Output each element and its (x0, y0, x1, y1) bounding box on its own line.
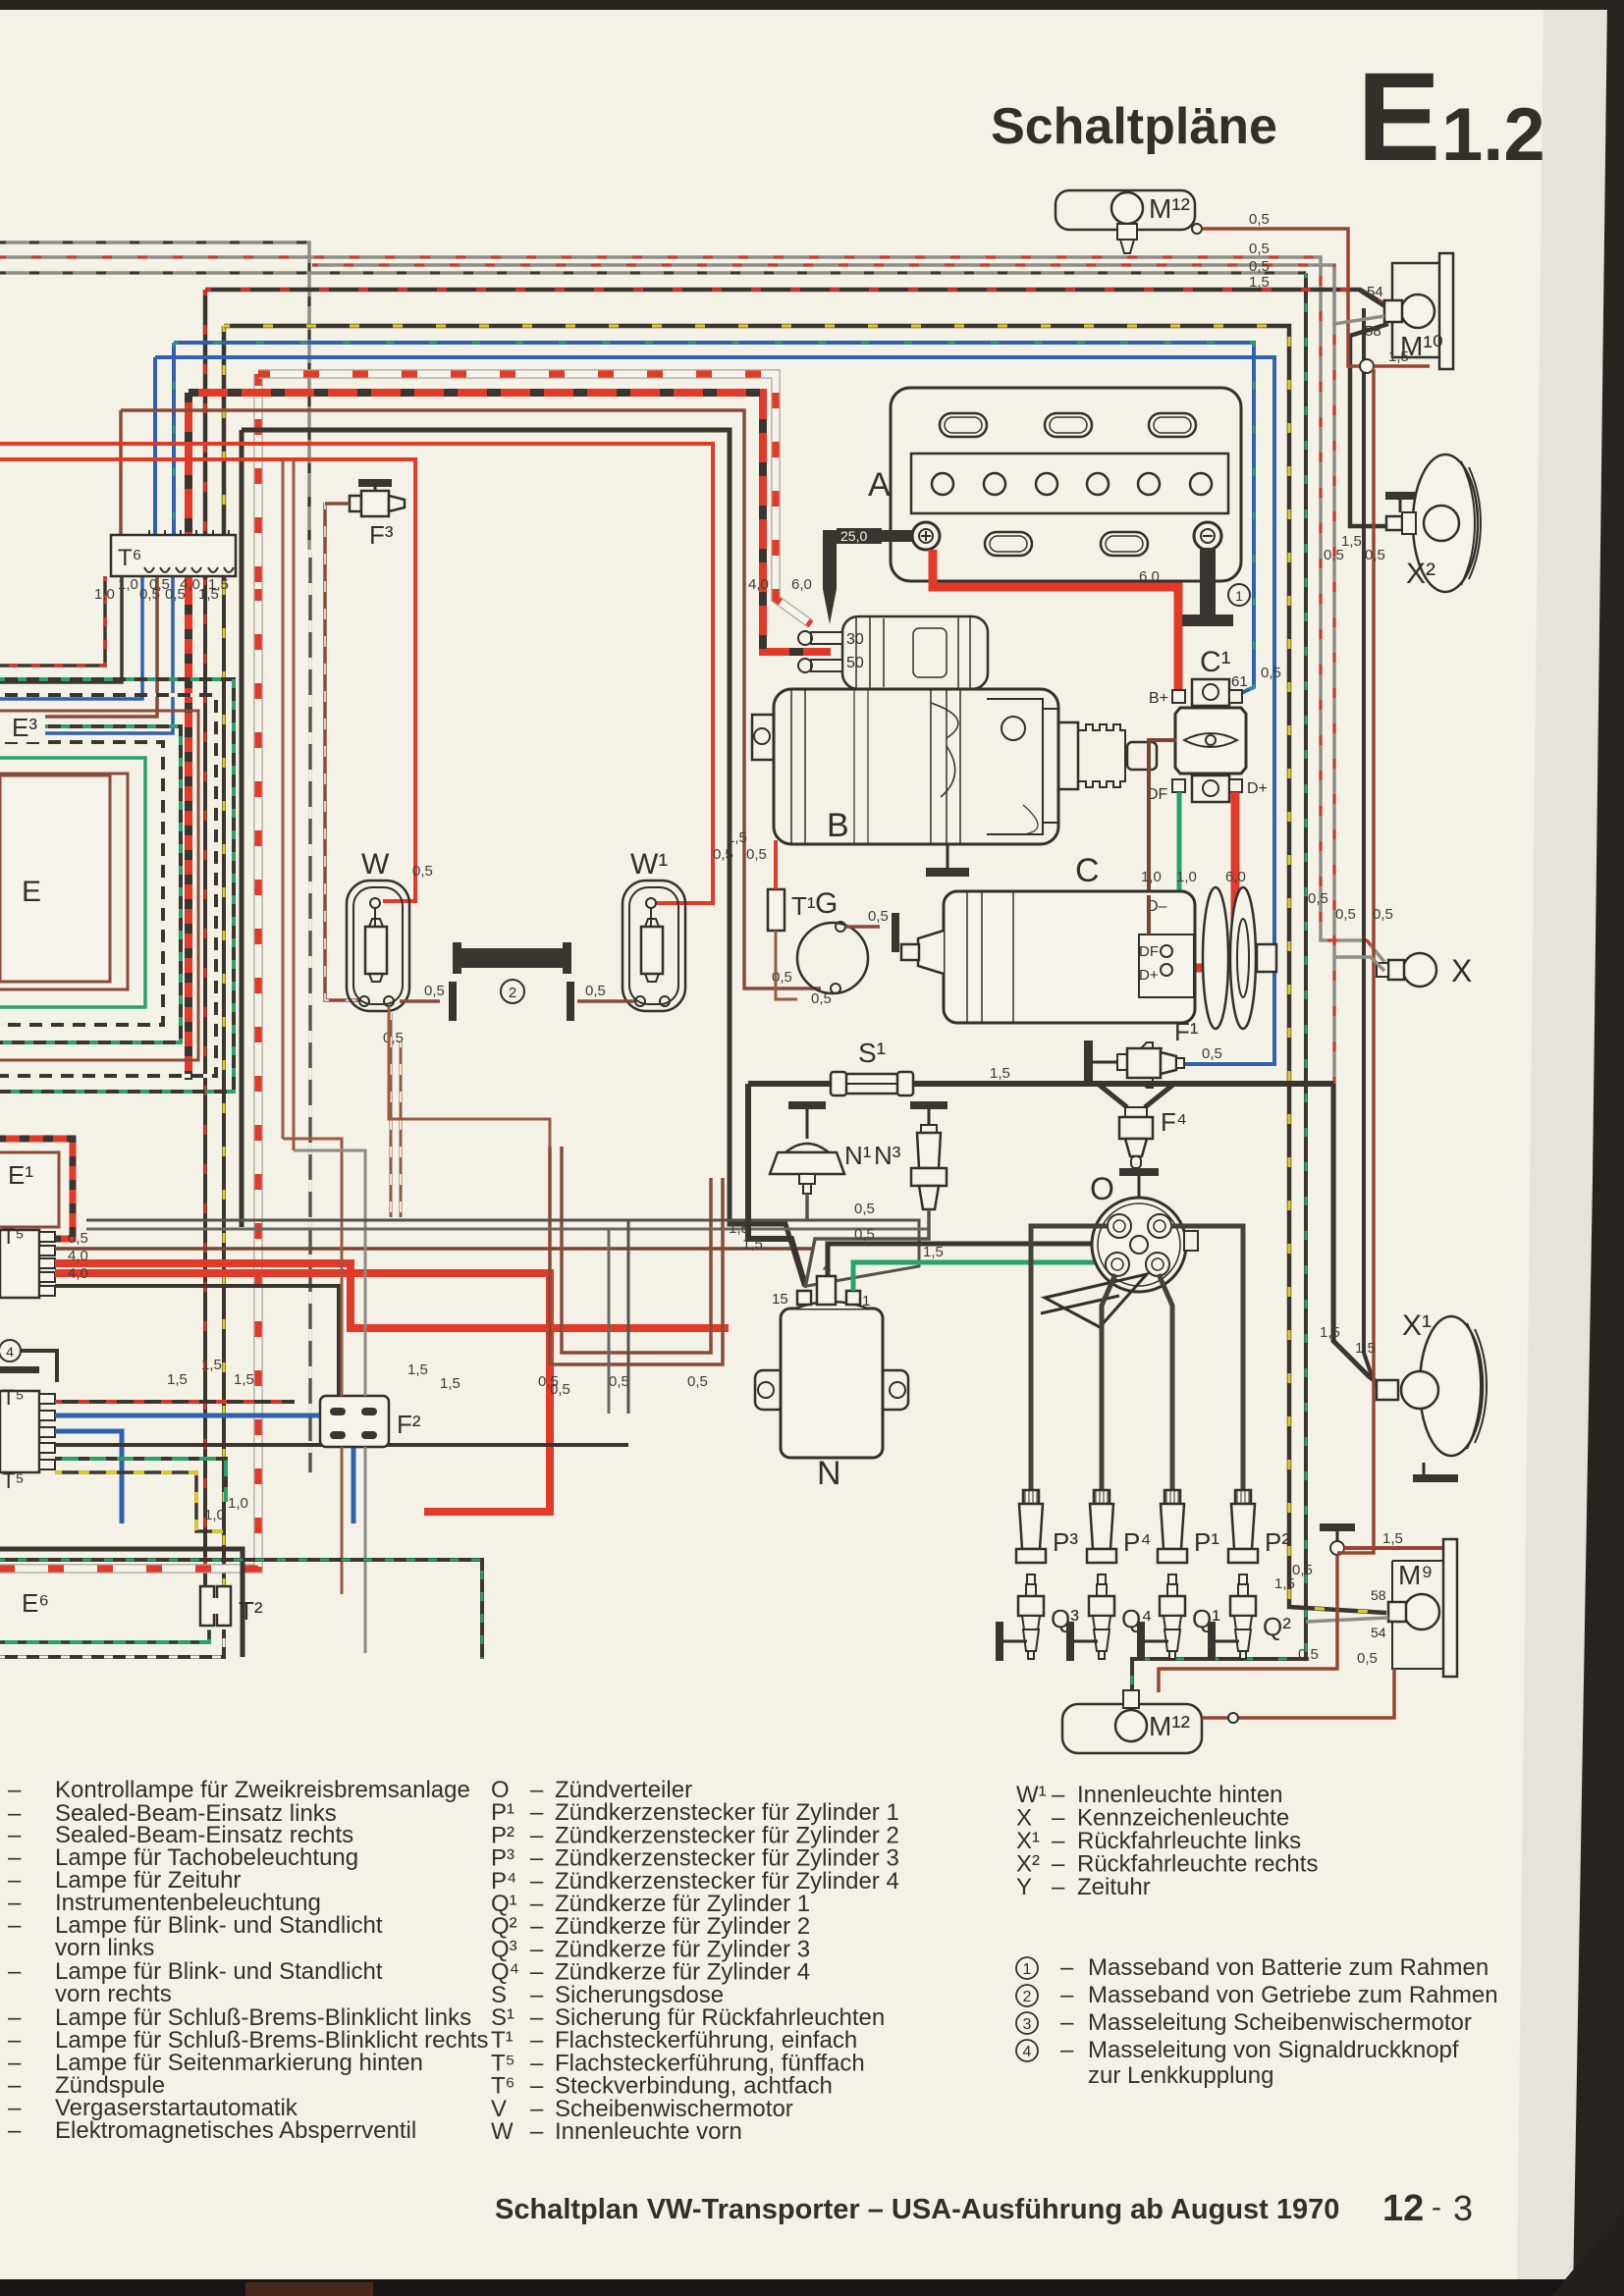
wire F3 brown lead (325, 502, 350, 506)
backup lamp X1 (1420, 1316, 1483, 1456)
wire black thick to coil (240, 430, 244, 609)
svg-text:1,0: 1,0 (228, 1495, 248, 1512)
wire gray vert 640 (627, 1220, 630, 1414)
svg-text:–: – (1060, 1954, 1074, 1981)
svg-text:1,0: 1,0 (1176, 869, 1197, 885)
svg-text:X: X (1451, 953, 1472, 988)
generator C (944, 891, 1195, 1023)
wire vert candy x192 (185, 609, 192, 1080)
cable battery minus to ground (1200, 548, 1216, 614)
ground F1 ground (1084, 1041, 1093, 1084)
plug connector P⁴ (1094, 1490, 1110, 1504)
wire left nest corner 0 (0, 576, 105, 666)
svg-text:1,0: 1,0 (118, 576, 138, 593)
svg-text:1,5: 1,5 (1249, 274, 1270, 291)
wire circled4 wire (21, 1351, 57, 1382)
svg-text:1: 1 (862, 1293, 870, 1309)
ground Q³ (996, 1622, 1003, 1661)
ground starter (947, 844, 949, 868)
svg-text:1,5: 1,5 (234, 1371, 254, 1388)
wire T5l blue2 (55, 1431, 122, 1523)
wire green C1 DF-gen (1165, 792, 1179, 951)
svg-text:1,5: 1,5 (1388, 348, 1409, 365)
svg-text:0,5: 0,5 (1373, 906, 1393, 923)
svg-text:1,5: 1,5 (201, 1357, 222, 1373)
svg-text:2: 2 (1023, 1989, 1032, 2005)
connector T1 (768, 889, 785, 931)
ground strap 2 (460, 948, 565, 968)
ground W1 left (567, 982, 574, 1021)
wire gray second into X (1334, 957, 1384, 971)
wire red thin to W (0, 459, 415, 901)
wire T5l black (55, 1443, 628, 1447)
wire vert black/yellow x228 (222, 589, 226, 1586)
battery A (891, 388, 1241, 581)
wire mid horiz b (86, 1228, 929, 1231)
svg-text:T⁵: T⁵ (2, 1224, 25, 1249)
wire red/black 4.0 candy v (185, 393, 192, 609)
svg-text:O: O (1090, 1171, 1114, 1206)
wire black/yellow to M9 (222, 326, 227, 589)
fuse F4 (1098, 1084, 1174, 1107)
svg-text:N: N (817, 1455, 841, 1492)
ground X1 stand (1413, 1474, 1458, 1482)
svg-text:Schaltpläne: Schaltpläne (991, 98, 1277, 155)
ground M9 ground (1320, 1523, 1355, 1531)
svg-text:4: 4 (6, 1344, 14, 1360)
svg-text:1,0: 1,0 (94, 586, 115, 603)
wire gray/red W2b to X1 (312, 265, 1386, 1386)
battery minus terminal (1194, 522, 1221, 550)
wire brown dash pair a (390, 1013, 393, 1217)
svg-text:0,5: 0,5 (1249, 211, 1270, 228)
wire lead to P4 (1102, 1274, 1115, 1496)
wire E-box frame 4 (0, 711, 198, 1060)
svg-text:–: – (1060, 2037, 1074, 2063)
battery plus terminal (912, 522, 940, 550)
wire brown dash pair b (400, 1041, 403, 1217)
svg-text:4,0: 4,0 (68, 1248, 88, 1264)
wire W bottom right brown (400, 999, 440, 1003)
wire G top lead (845, 925, 880, 929)
svg-text:0,5: 0,5 (1308, 890, 1328, 907)
wire brown to G h (121, 410, 821, 988)
svg-text:0,5: 0,5 (1292, 1562, 1313, 1578)
svg-text:E³: E³ (12, 713, 37, 742)
ground N3 ground (910, 1101, 947, 1109)
wire brown loop a (550, 1147, 723, 1364)
svg-text:0,5: 0,5 (424, 983, 445, 999)
wire black/yellow to M9 h (224, 326, 1386, 1613)
wire brown to G (119, 410, 123, 550)
wire vert brown x288 (282, 461, 285, 1139)
wire red/white 6.0 candy h (258, 374, 811, 624)
svg-text:F²: F² (397, 1410, 421, 1439)
wire brown C1-Dminus (1149, 740, 1176, 895)
svg-text:A: A (868, 466, 891, 504)
wire gray into M9 54 (1306, 1618, 1388, 1622)
switch F2 (320, 1396, 389, 1447)
wire brown M10 stub (1374, 364, 1430, 368)
wire left nest corner 3 (0, 576, 157, 717)
svg-text:0,5: 0,5 (412, 863, 433, 880)
wire bus black 1.5 (748, 1081, 1333, 1087)
ground Q⁴ (1066, 1622, 1074, 1661)
svg-text:zur Lenkkupplung: zur Lenkkupplung (1088, 2062, 1273, 2089)
svg-text:2: 2 (509, 985, 516, 1001)
scan border right dark (1573, 0, 1624, 2296)
svg-text:P²: P² (1265, 1527, 1290, 1557)
svg-text:0,5: 0,5 (1365, 547, 1385, 563)
ground starter ground (926, 868, 969, 877)
svg-text:F⁴: F⁴ (1161, 1107, 1187, 1137)
wire gray/red W2 to X (0, 257, 1384, 962)
wire F2 feed brownB (294, 1150, 365, 1396)
svg-text:Schaltplan VW-Transporter – US: Schaltplan VW-Transporter – USA-Ausführu… (495, 2194, 1339, 2225)
svg-text:1,5: 1,5 (407, 1362, 428, 1378)
svg-text:0,5: 0,5 (868, 908, 889, 925)
wire blue to F1 (153, 357, 157, 550)
svg-text:W: W (491, 2118, 514, 2145)
wire E1 frame red/black (0, 1139, 73, 1239)
wire E-box frame 3 (0, 726, 181, 1042)
svg-text:P⁴: P⁴ (1123, 1527, 1152, 1557)
scan border right gray strip (1517, 10, 1610, 2296)
svg-text:1,5: 1,5 (990, 1065, 1010, 1082)
svg-text:Q²: Q² (1263, 1612, 1291, 1641)
wire brown loop b (562, 1147, 711, 1353)
svg-text:X¹: X¹ (1402, 1309, 1432, 1342)
wire black/green W3 down to M12 bottom (1132, 273, 1306, 1690)
wire brown M12b right (1202, 1669, 1394, 1718)
wire brown down from M10 node (1372, 369, 1376, 1541)
wire red/white 6.0 candy (253, 374, 263, 589)
svg-text:1,0: 1,0 (1141, 869, 1162, 885)
svg-text:Q³: Q³ (1051, 1604, 1079, 1633)
svg-text:-: - (1432, 2191, 1441, 2223)
node circled 1 (1228, 584, 1250, 606)
ground X2 ground (1385, 492, 1415, 500)
lamp M12 top (1056, 190, 1195, 230)
ground F3 ground (358, 479, 392, 487)
wire red thin to W1 (0, 444, 713, 903)
svg-text:vorn rechts: vorn rechts (55, 1981, 172, 2007)
svg-text:Q¹: Q¹ (1192, 1604, 1220, 1633)
svg-text:1,5: 1,5 (729, 1220, 749, 1237)
svg-text:1,5: 1,5 (167, 1371, 188, 1388)
svg-text:1,5: 1,5 (1355, 1340, 1376, 1357)
svg-text:–: – (1052, 1874, 1065, 1900)
svg-text:–: – (530, 2118, 544, 2145)
wire black/red 1.5 to M10-54 h (205, 290, 1386, 305)
svg-text:Masseband von Batterie zum Rah: Masseband von Batterie zum Rahmen (1088, 1954, 1489, 1981)
wire E6 frame blackwhite bottom (0, 1629, 224, 1657)
spark plug Q⁴ (1098, 1575, 1106, 1584)
svg-text:T⁵: T⁵ (2, 1385, 25, 1410)
svg-text:1,5: 1,5 (440, 1375, 460, 1392)
plug connector P³ (1023, 1490, 1039, 1504)
wire T5u black (55, 1286, 339, 1396)
svg-text:54: 54 (1371, 1625, 1386, 1640)
svg-text:M⁹: M⁹ (1398, 1560, 1433, 1590)
svg-text:6,0: 6,0 (791, 576, 812, 593)
svg-text:3: 3 (1453, 2188, 1473, 2228)
svg-text:Masseleitung Scheibenwischermo: Masseleitung Scheibenwischermotor (1088, 2009, 1472, 2036)
svg-text:58: 58 (1371, 1587, 1386, 1603)
svg-text:58: 58 (1365, 323, 1381, 340)
ground battery ground strap 1 (1182, 614, 1233, 626)
svg-text:T⁶: T⁶ (118, 545, 142, 571)
svg-text:C¹: C¹ (1200, 646, 1231, 678)
svg-text:0,5: 0,5 (1298, 1646, 1319, 1663)
wire black to X2 (1350, 324, 1388, 526)
svg-text:1,5: 1,5 (1341, 533, 1362, 550)
scan border bottom (0, 2279, 1624, 2296)
ground Q² (1208, 1622, 1216, 1661)
svg-text:X²: X² (1406, 558, 1435, 590)
wire black thick to coil h (242, 430, 803, 1281)
lamp W1 (623, 881, 685, 1011)
svg-text:G: G (815, 887, 838, 920)
wire E-box frame 2 (0, 742, 163, 1025)
svg-text:C: C (1075, 852, 1100, 889)
svg-text:1: 1 (1023, 1961, 1032, 1978)
svg-text:1,5: 1,5 (1320, 1324, 1340, 1341)
wire F2 feed brownA (283, 1139, 342, 1396)
ground N1 ground (788, 1101, 826, 1109)
ground distributor ground (1119, 1168, 1159, 1176)
svg-text:Y: Y (1016, 1874, 1032, 1900)
wire mid horiz a (86, 1220, 919, 1286)
wire F2 out gray (364, 1447, 367, 1653)
svg-text:0,5: 0,5 (1261, 665, 1281, 681)
svg-text:0,5: 0,5 (811, 990, 832, 1007)
svg-text:6,0: 6,0 (1139, 568, 1160, 585)
svg-text:N¹: N¹ (844, 1141, 872, 1170)
wire bus left down (748, 1084, 805, 1286)
wire brown M9 feed (1344, 1546, 1443, 1550)
wire T5l red/black (55, 1400, 295, 1404)
wire left nest corner 2 (0, 576, 142, 699)
ground W right (449, 982, 457, 1021)
svg-text:6,0: 6,0 (1225, 869, 1246, 885)
svg-text:4,0: 4,0 (180, 576, 200, 593)
sender G (797, 923, 868, 993)
svg-text:F³: F³ (369, 520, 394, 550)
wire T1 brown bottom (776, 931, 797, 999)
connector T6 (111, 535, 236, 576)
wire lead to P3 (1031, 1226, 1108, 1496)
node circled 2 (501, 980, 524, 1003)
wire brown M12-M10 (1202, 229, 1361, 366)
svg-text:50: 50 (846, 655, 864, 671)
wire vert black x246 (240, 609, 244, 1227)
svg-text:3: 3 (1023, 2016, 1032, 2033)
svg-text:–: – (1060, 2009, 1074, 2036)
svg-text:Q⁴: Q⁴ (1121, 1604, 1152, 1633)
svg-text:D+: D+ (1247, 780, 1268, 797)
svg-text:0,5: 0,5 (383, 1030, 404, 1046)
wire T5l yellow (55, 1472, 226, 1531)
svg-text:0,5: 0,5 (1357, 1650, 1378, 1667)
svg-text:1,5: 1,5 (742, 1236, 763, 1253)
plug connector P² (1235, 1490, 1251, 1504)
wire red 6.0 battery-C1 (933, 550, 1178, 689)
connector T2 (200, 1586, 214, 1626)
wire blue/green to C1 61 h (174, 343, 1254, 695)
lamp M10 (1439, 253, 1453, 369)
node M10 bottom (1360, 359, 1374, 373)
spark plug Q³ (1027, 1575, 1035, 1584)
svg-text:D+: D+ (1139, 967, 1159, 984)
wire brown down to M12 bottom (1159, 1555, 1337, 1692)
svg-text:25,0: 25,0 (840, 528, 867, 544)
svg-text:15: 15 (772, 1291, 788, 1308)
svg-text:E: E (1357, 47, 1440, 187)
spark plug Q¹ (1168, 1575, 1176, 1584)
scan border top (0, 0, 1624, 10)
ground Q¹ (1137, 1622, 1145, 1661)
svg-text:0,5: 0,5 (609, 1373, 629, 1390)
svg-text:E⁶: E⁶ (22, 1588, 49, 1618)
ground G ground (892, 913, 899, 952)
svg-text:4: 4 (1023, 2044, 1032, 2060)
svg-text:Masseband von Getriebe zum Rah: Masseband von Getriebe zum Rahmen (1088, 1982, 1498, 2008)
wire lead to P2 (1170, 1226, 1243, 1496)
svg-text:P³: P³ (1053, 1527, 1078, 1557)
svg-text:W¹: W¹ (630, 848, 668, 881)
wire E6 frame green long (0, 1560, 482, 1659)
svg-text:Zeituhr: Zeituhr (1077, 1874, 1151, 1900)
svg-text:–: – (8, 1777, 22, 1803)
svg-text:M¹²: M¹² (1149, 193, 1190, 224)
svg-text:4,0: 4,0 (68, 1265, 88, 1282)
svg-text:0,5: 0,5 (550, 1381, 570, 1398)
wire coil HT to distributor (828, 1244, 1129, 1276)
ignition coil N (781, 1308, 883, 1458)
spark plug Q² (1239, 1575, 1247, 1584)
wire T5u red 4.0 b (55, 1273, 550, 1512)
svg-text:–: – (8, 2117, 22, 2144)
svg-text:0,5: 0,5 (746, 846, 767, 863)
ground circled4 bar (0, 1366, 39, 1373)
svg-text:–: – (8, 1958, 22, 1985)
svg-text:Kontrollampe für Zweikreisbrem: Kontrollampe für Zweikreisbremsanlage (55, 1777, 470, 1803)
svg-text:–: – (8, 1912, 22, 1939)
svg-text:1,5: 1,5 (1274, 1575, 1295, 1592)
svg-text:B: B (827, 807, 849, 844)
svg-text:0,5: 0,5 (854, 1226, 875, 1243)
wire E-box frame 6 (0, 679, 234, 1092)
svg-text:E¹: E¹ (8, 1160, 33, 1190)
wire gray/black W3 top (0, 271, 1306, 275)
wire W bottom down brown (389, 1006, 550, 1148)
svg-text:F¹: F¹ (1174, 1017, 1199, 1046)
svg-text:Innenleuchte vorn: Innenleuchte vorn (555, 2118, 742, 2145)
wire vert brown x331 F3-W (325, 503, 359, 1000)
svg-text:0,5: 0,5 (1324, 547, 1344, 563)
svg-text:P¹: P¹ (1194, 1527, 1219, 1557)
wire green coil-distributor (853, 1262, 1100, 1291)
wire N1 lead (805, 1194, 809, 1220)
svg-text:0,5: 0,5 (1249, 240, 1270, 257)
svg-text:1: 1 (1235, 588, 1243, 604)
svg-text:0,5: 0,5 (1202, 1045, 1222, 1062)
wire E1 frame inner (0, 1152, 59, 1227)
svg-text:61: 61 (1231, 673, 1248, 690)
wire left nest corner 4 (0, 576, 173, 733)
svg-text:N³: N³ (874, 1141, 901, 1170)
wire E6 frame green bottom (0, 1629, 209, 1642)
svg-text:E: E (22, 876, 41, 908)
wire black/red 1.5 to M10-54 (203, 290, 208, 579)
wire red 6.0 C1 Dplus-gen (1168, 792, 1235, 968)
wire vert black/red x211 (203, 579, 207, 1586)
wire brown M9node to M12 (1337, 1541, 1374, 1553)
license lamp X (1403, 953, 1436, 987)
wire wire into M10 58 (1334, 267, 1384, 324)
wire gray vert 620 (608, 1229, 611, 1414)
svg-text:1,5: 1,5 (1382, 1530, 1403, 1547)
svg-text:12: 12 (1382, 2188, 1424, 2229)
wire W1 bottom left brown (577, 999, 634, 1003)
svg-text:1.2: 1.2 (1441, 93, 1545, 177)
svg-text:0,5: 0,5 (854, 1201, 875, 1217)
wire E-box frame 5 (0, 695, 216, 1076)
svg-text:T¹: T¹ (791, 891, 816, 921)
node E3 label (0, 713, 45, 742)
node circled 4 (0, 1340, 21, 1362)
svg-text:Elektromagnetisches Absperrven: Elektromagnetisches Absperrventil (55, 2117, 416, 2144)
wire blue to F1 h (155, 357, 1274, 1064)
svg-text:0,5: 0,5 (585, 983, 606, 999)
wire vert brown x299 (293, 461, 296, 1150)
plug connector P¹ (1164, 1490, 1180, 1504)
svg-text:1,5: 1,5 (923, 1244, 944, 1260)
wire lead to P1 (1159, 1274, 1172, 1496)
wire F2 out brown (341, 1447, 344, 1594)
distributor rotor flag (1041, 1274, 1147, 1327)
svg-text:T⁵: T⁵ (2, 1468, 25, 1493)
svg-text:T²: T² (239, 1596, 263, 1626)
svg-text:0,5: 0,5 (713, 846, 733, 863)
wire red/black 4.0 candy h (189, 393, 831, 652)
wire wire into M10 54 (1360, 291, 1384, 306)
svg-text:0,5: 0,5 (687, 1373, 708, 1390)
svg-text:S¹: S¹ (858, 1038, 886, 1068)
cable 25.0 battery to starter (830, 530, 912, 542)
svg-text:B+: B+ (1149, 690, 1168, 707)
svg-text:4,0: 4,0 (748, 576, 769, 593)
wire T5l blue hook (55, 1415, 353, 1523)
regulator C1 (1192, 679, 1229, 706)
wire gray/black W1 top (0, 242, 309, 550)
wire vert candy white x263 (0, 589, 258, 1569)
wire T5l green/black (55, 1459, 226, 1502)
starter motor B (842, 616, 988, 689)
wire T1 red top (774, 840, 778, 889)
svg-text:0,5: 0,5 (1335, 906, 1356, 923)
wire T5u brown 0,5 (55, 1247, 813, 1251)
svg-text:Masseleitung von Signaldruckkn: Masseleitung von Signaldruckknopf (1088, 2037, 1459, 2063)
svg-text:M¹²: M¹² (1149, 1711, 1190, 1741)
svg-text:1,5: 1,5 (727, 829, 747, 846)
wire bus right down (1333, 1084, 1377, 1382)
wire left nest corner 1 (0, 576, 122, 682)
wire E-box frame 1 (0, 758, 145, 1007)
svg-text:1,5: 1,5 (208, 576, 229, 593)
wire vert gray x316 (308, 550, 312, 1472)
